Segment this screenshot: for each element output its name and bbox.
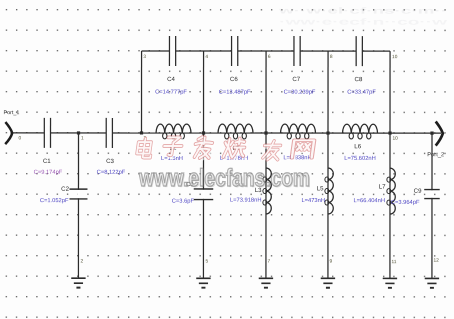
svg-text:·ww·e·ecf·n··co··w: ·ww·e·ecf·n··co··w xyxy=(279,17,447,27)
capacitor C8 xyxy=(355,36,363,83)
wire: vertical riser node8 to top line xyxy=(327,51,329,133)
svg-text:5: 5 xyxy=(205,258,208,264)
svg-text:C3: C3 xyxy=(106,158,114,165)
svg-text:C2: C2 xyxy=(61,186,69,193)
svg-text:8: 8 xyxy=(330,54,333,60)
wire: shunt branch C2 xyxy=(77,133,79,278)
wire: vertical riser node2 to top line xyxy=(141,51,143,133)
inductor L7 xyxy=(387,168,395,214)
wire: shunt branch L7 xyxy=(389,133,391,278)
capacitor C5 xyxy=(186,181,214,199)
svg-text:C=13.487pF: C=13.487pF xyxy=(219,89,251,96)
wire: shunt branch C9 xyxy=(431,133,433,278)
wire: shunt branch L3 xyxy=(265,133,267,278)
svg-text:L7: L7 xyxy=(379,183,386,190)
svg-text:L=473nH: L=473nH xyxy=(301,197,325,204)
svg-text:C1: C1 xyxy=(43,158,51,165)
svg-text:www.elecfans.com: www.elecfans.com xyxy=(138,165,310,192)
inductor L4 xyxy=(281,124,316,139)
node 10 junction xyxy=(388,131,391,134)
capacitor C1 xyxy=(43,118,51,165)
wire: vertical riser node10 to top line xyxy=(389,51,391,133)
svg-text:L6: L6 xyxy=(354,143,361,150)
node 6 junction xyxy=(264,131,267,134)
svg-text:L5: L5 xyxy=(317,185,324,192)
svg-text:C=30.239pF: C=30.239pF xyxy=(284,89,316,96)
capacitor C6 xyxy=(230,36,238,83)
svg-text:9: 9 xyxy=(329,259,332,265)
ground (L3 branch) xyxy=(259,278,273,287)
wire: main line Port_1 to Port_2 xyxy=(11,132,441,134)
watermark: www.elecfans.com xyxy=(138,165,311,193)
svg-text:C9: C9 xyxy=(414,188,422,195)
svg-text:Port_2: Port_2 xyxy=(427,151,444,158)
svg-text:Port_1: Port_1 xyxy=(4,110,20,116)
inductor L2 xyxy=(218,124,253,139)
svg-text:4: 4 xyxy=(205,54,208,60)
ground (L5 branch) xyxy=(321,278,335,287)
inductor L5 xyxy=(325,168,333,214)
svg-text:2: 2 xyxy=(80,258,83,264)
node 4 junction xyxy=(202,131,205,134)
wire: vertical riser node4 to top line xyxy=(203,51,205,133)
inductor L1 xyxy=(156,124,191,139)
svg-text:C6: C6 xyxy=(230,76,238,83)
svg-text:11: 11 xyxy=(391,259,396,265)
svg-text:10: 10 xyxy=(392,54,398,60)
svg-text:6: 6 xyxy=(268,54,271,60)
svg-text:L=66.404nH: L=66.404nH xyxy=(353,197,385,204)
inductor L6 xyxy=(343,124,378,139)
svg-text:0: 0 xyxy=(19,135,22,141)
svg-text:C=8.122pF: C=8.122pF xyxy=(97,169,126,176)
ground (L7 branch) xyxy=(383,278,397,287)
ground (C9 branch) xyxy=(425,278,439,287)
node 2 junction xyxy=(140,131,143,134)
node 8 junction xyxy=(326,131,329,134)
svg-text:12: 12 xyxy=(433,258,439,264)
capacitor C7 xyxy=(292,36,300,83)
svg-text:7: 7 xyxy=(267,259,270,265)
port Port_1 xyxy=(4,110,20,144)
capacitor C9 xyxy=(414,188,440,199)
port Port_2 xyxy=(427,122,444,159)
inductor L3 xyxy=(263,168,271,214)
wire: top coupling line xyxy=(142,50,390,52)
svg-text:C=1.052pF: C=1.052pF xyxy=(40,197,69,204)
svg-text:C=3.6pF: C=3.6pF xyxy=(172,198,195,205)
ground (C2 branch) xyxy=(71,278,85,287)
svg-text:L=75.602nH: L=75.602nH xyxy=(344,155,376,162)
wire: vertical riser node6 to top line xyxy=(265,51,267,133)
ground (C5 branch) xyxy=(196,278,210,287)
wire: shunt branch C5 xyxy=(202,133,204,278)
watermark: red CJK characters dian-zi-fa-shao-you-wang xyxy=(136,137,316,161)
svg-text:C=9.174pF: C=9.174pF xyxy=(34,169,63,176)
capacitor C3 xyxy=(106,118,114,165)
svg-text:L=0.838nH: L=0.838nH xyxy=(283,154,311,161)
svg-text:C=33.47pF: C=33.47pF xyxy=(347,89,376,96)
wire: shunt branch L5 xyxy=(327,133,329,278)
svg-text:1: 1 xyxy=(81,135,84,141)
capacitor C4 xyxy=(167,36,176,83)
svg-text:L=73.918nH: L=73.918nH xyxy=(230,197,262,204)
node 1 junction xyxy=(77,131,80,134)
svg-text:w··w·el·cf·ns·c·m··: w··w·el·cf·ns·c·m·· xyxy=(277,6,447,16)
watermark ghost: faint top-right echo lines xyxy=(277,6,447,27)
svg-text:C4: C4 xyxy=(167,76,175,83)
svg-text:C=3.964pF: C=3.964pF xyxy=(391,199,420,206)
svg-text:C8: C8 xyxy=(355,76,363,83)
svg-text:C=14.777pF: C=14.777pF xyxy=(155,89,187,96)
svg-text:10: 10 xyxy=(393,136,399,142)
svg-text:3: 3 xyxy=(143,54,146,60)
svg-text:C7: C7 xyxy=(292,76,300,83)
capacitor C2 xyxy=(61,186,87,199)
node C9 junction xyxy=(430,132,433,135)
